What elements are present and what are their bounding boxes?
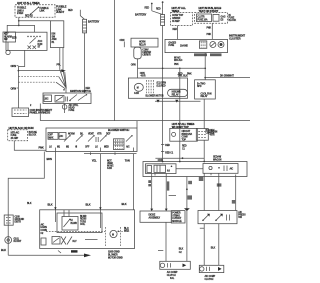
PS cutout module box — [171, 211, 185, 223]
svg-text:RED: RED — [68, 10, 73, 12]
svg-text:TAN: TAN — [125, 159, 130, 163]
label BLK left — [27, 203, 32, 205]
bus switch lever 1 — [69, 95, 77, 102]
wire to ignition switch column box — [19, 20, 51, 22]
pin hatch column — [147, 80, 154, 94]
fuse F1 text block — [17, 8, 33, 18]
motor M1 circle — [110, 230, 117, 237]
label PNK 1 — [207, 28, 212, 30]
label C1 right column — [211, 248, 216, 250]
svg-text:LINK A: LINK A — [17, 9, 24, 12]
battery feed stub — [68, 10, 85, 19]
label RED stub2 — [156, 8, 161, 10]
label ticks left wire — [148, 180, 151, 186]
svg-text:RELAY: RELAY — [201, 95, 209, 98]
connector sub-box (left) — [3, 32, 16, 42]
label above branch left — [178, 75, 189, 78]
label BRN — [47, 157, 53, 161]
wire BRN blower feed — [54, 152, 56, 210]
A/C control head box U3 — [46, 128, 137, 152]
wire breaker down — [137, 59, 139, 69]
svg-text:BZR: BZR — [12, 38, 17, 40]
svg-text:BLK: BLK — [211, 248, 216, 250]
svg-text:POWER: POWER — [172, 213, 181, 215]
header HOT IN RUN BULB TEST — [199, 6, 222, 13]
label FUSIBLE LINK E (right of box) — [56, 5, 67, 15]
diode entry arrows — [150, 209, 167, 211]
compressor clutch L2 coil — [199, 265, 224, 272]
svg-text:2 RED: 2 RED — [17, 13, 24, 15]
connector arrow on clutch wire — [184, 208, 190, 211]
relay sub-box inner — [62, 217, 78, 231]
instrument cluster box U5 — [165, 39, 228, 52]
wire breaker down to junction — [179, 141, 181, 161]
label HVAC MODULE note — [30, 105, 32, 107]
wire bus to long feed — [39, 104, 41, 121]
svg-text:MED: MED — [104, 146, 109, 148]
svg-text:CUTOUT: CUTOUT — [172, 218, 182, 220]
svg-text:PNK: PNK — [174, 64, 179, 66]
svg-text:25 AMP: 25 AMP — [11, 137, 19, 140]
svg-text:RED: RED — [145, 7, 150, 9]
wire junction to clutch (DK GRN) — [186, 177, 188, 262]
breaker circle — [172, 132, 176, 136]
fuse F2 text — [11, 132, 20, 140]
svg-text:IGNITION SWITCH: IGNITION SWITCH — [70, 89, 91, 93]
connector circle C1 — [6, 50, 10, 54]
node dot y77.6 + branch wire right — [204, 77, 250, 79]
tick on diode wire — [158, 249, 163, 251]
breaker text rows — [182, 131, 193, 141]
pressure contact 1 — [202, 214, 210, 221]
svg-text:RLY: RLY — [73, 241, 78, 243]
wire stub DK BLU — [217, 177, 222, 211]
wire merge diagonal — [152, 10, 163, 15]
svg-text:SPD: SPD — [197, 86, 202, 88]
battery stub 2 — [162, 1, 164, 9]
svg-text:10A IND: 10A IND — [180, 45, 188, 48]
node dot on clutch wire — [186, 188, 188, 190]
ground eyelet circle G101 — [5, 237, 12, 244]
wire long vertical drop (from top) — [114, 0, 116, 121]
node dot y68 — [204, 67, 206, 69]
svg-text:OFF: OFF — [85, 146, 90, 148]
svg-text:RELAY: RELAY — [172, 93, 180, 96]
wire fuse B down — [177, 26, 179, 40]
label A/C COMPRESSOR CLUTCH (left) — [167, 271, 178, 280]
svg-text:A/C COMP: A/C COMP — [167, 271, 178, 274]
svg-text:40 AMP: 40 AMP — [172, 20, 180, 23]
svg-text:C/BRKR: C/BRKR — [142, 55, 151, 57]
wire diode to clutch — [165, 222, 167, 261]
label right of breaker — [206, 130, 215, 135]
svg-text:IGN: IGN — [52, 34, 56, 36]
battery B1 symbol — [83, 19, 87, 33]
fuse C text — [221, 15, 226, 21]
svg-text:4-DR: 4-DR — [141, 75, 146, 78]
svg-text:PNK: PNK — [207, 34, 212, 36]
svg-text:B+ TWO: B+ TWO — [197, 83, 206, 85]
node A junction dots — [18, 20, 20, 26]
label RED tick on feed — [161, 145, 170, 147]
label connector right — [210, 132, 218, 137]
label IN FUSE BLOCK (right) — [229, 15, 237, 22]
alternate wire y158 — [155, 157, 204, 159]
contact X marks — [28, 46, 37, 50]
label BLK arrow 2 — [86, 202, 102, 209]
connector line y101 — [155, 100, 201, 102]
wire sub-box to pressure switch — [235, 175, 237, 211]
label ORN with tick — [11, 64, 19, 68]
wire junction to pressure switch — [203, 177, 205, 211]
switch X marks — [61, 237, 72, 245]
label PNK — [39, 145, 44, 149]
svg-text:RED: RED — [173, 29, 178, 31]
svg-text:A/C: A/C — [126, 145, 130, 148]
wire PNK cluster feed — [211, 23, 213, 39]
svg-text:BLK: BLK — [1, 248, 6, 252]
relay oval — [168, 89, 188, 96]
wire fan relay down — [203, 99, 205, 129]
svg-text:HOT AT ALL TIMES: HOT AT ALL TIMES — [17, 1, 40, 5]
bus switch lever 2 — [78, 94, 87, 100]
wire junction to diode left — [151, 177, 153, 212]
ignition switch U1 outer box — [6, 32, 47, 50]
label C205 GROUND — [15, 216, 25, 223]
wire junction to diode right — [165, 177, 167, 212]
header HOT AT ALL TIMES (mid right) — [172, 122, 195, 129]
wire battery down to ignition bus — [84, 33, 86, 93]
text rows inside ignition box right — [38, 40, 43, 49]
svg-text:DIODE: DIODE — [149, 215, 156, 217]
inner wire continuation 1 — [54, 210, 56, 222]
svg-text:TORS: TORS — [80, 221, 86, 223]
svg-text:RED: RED — [165, 145, 170, 147]
svg-text:RED: RED — [156, 8, 161, 10]
label 4 DR — [158, 159, 163, 162]
text rows right of pins — [157, 83, 167, 88]
svg-text:ACC: ACC — [38, 40, 43, 43]
wire ground run bottom — [8, 254, 87, 256]
svg-text:CONV TOP: CONV TOP — [172, 15, 184, 17]
svg-text:FUSE 10A: FUSE 10A — [197, 18, 207, 21]
label G101 — [14, 239, 22, 244]
svg-text:PNK: PNK — [187, 73, 192, 75]
ticks below module box — [58, 250, 78, 253]
label BLK right — [122, 202, 127, 206]
label ORN lower — [11, 86, 19, 90]
circuit breaker rounded — [134, 47, 141, 59]
svg-text:RUN: RUN — [38, 44, 43, 46]
cluster small text — [180, 45, 188, 48]
resistor hatch block — [114, 139, 125, 150]
svg-text:KEY: KEY — [4, 34, 9, 36]
compressor clutch L1 coil — [160, 261, 191, 269]
label inside ignition box left — [12, 38, 17, 40]
wire pressure switch to clutch 1 — [203, 224, 205, 266]
svg-text:C/BRKR: C/BRKR — [172, 18, 181, 20]
svg-text:GAGES: GAGES — [168, 41, 176, 44]
svg-text:BLOWER SWITCH: BLOWER SWITCH — [108, 128, 129, 132]
svg-text:JUNCT: JUNCT — [56, 10, 65, 14]
battery stub 1 (top right) — [151, 3, 153, 11]
svg-text:A/C: A/C — [41, 223, 45, 226]
label A/C PRESSURE SWITCHES — [238, 211, 246, 219]
inner wire continuation 2 — [99, 210, 101, 228]
svg-text:HI BLWR: HI BLWR — [172, 92, 181, 94]
pin dashes — [66, 97, 68, 102]
svg-text:RELAY: RELAY — [139, 43, 147, 46]
label RADIATOR FAN RELAY — [201, 92, 212, 98]
junction sub-box right — [203, 164, 238, 174]
svg-text:DEF: DEF — [106, 133, 111, 135]
svg-text:(C1) ORN: (C1) ORN — [157, 83, 167, 85]
svg-text:RESIS: RESIS — [80, 219, 87, 221]
svg-text:W/ A/C: W/ A/C — [107, 165, 114, 168]
label BATTERY (right section) — [135, 13, 147, 17]
svg-text:M: M — [137, 88, 139, 90]
circuit breaker box U8 — [170, 128, 198, 141]
svg-text:BLOWER: BLOWER — [108, 254, 118, 256]
svg-text:MODULE: MODULE — [172, 221, 182, 223]
labels below cluster — [194, 53, 222, 56]
terminal stubs — [55, 148, 133, 152]
wire to ignition switch feed — [7, 25, 34, 32]
svg-text:LO: LO — [49, 146, 52, 148]
fuse dashed box C — [195, 13, 228, 24]
svg-text:A/C: A/C — [59, 135, 63, 138]
svg-text:ASM: ASM — [52, 38, 57, 41]
heater A/C module box U4 — [40, 210, 135, 249]
pressure contact 2 — [215, 214, 223, 221]
svg-text:NORM: NORM — [68, 133, 75, 135]
svg-text:BATTERY: BATTERY — [88, 20, 100, 24]
svg-text:CLUSTER: CLUSTER — [229, 36, 241, 40]
HTR A/C fuse dashed box — [8, 130, 28, 141]
header HOT AT ALL TIMES (top-left) — [17, 1, 40, 5]
junction pin ticks right — [204, 173, 219, 176]
wire LT BLU right — [132, 154, 134, 210]
node dot and wire — [118, 231, 131, 233]
motor M2 circle — [134, 83, 143, 91]
label under motor — [134, 92, 139, 95]
svg-text:FUSE: FUSE — [69, 110, 75, 112]
connector C100 box — [12, 108, 29, 117]
label BLK arrow 1 — [48, 202, 57, 209]
svg-text:CLSTR: CLSTR — [197, 16, 205, 18]
blower motor box U6 — [128, 78, 187, 98]
svg-text:YEL: YEL — [92, 159, 97, 163]
connector arrows — [156, 100, 178, 103]
label BLK bottom — [1, 248, 6, 252]
svg-text:HEAD: HEAD — [69, 107, 75, 110]
inline connector box on PNK wire — [196, 129, 208, 141]
label tick 1 — [188, 181, 192, 184]
svg-text:HORN: HORN — [139, 41, 146, 43]
svg-text:DK GRN/WHT: DK GRN/WHT — [220, 75, 234, 77]
switch contact S2 — [76, 135, 83, 141]
label notes above bus — [174, 57, 183, 63]
switch contact S3 — [88, 135, 95, 141]
cluster fuse text — [168, 41, 176, 47]
wires from ignition column down — [60, 48, 66, 88]
label LT BLU — [125, 159, 130, 163]
wire horizontal bus y68 — [138, 67, 206, 69]
fusible link F3 element — [161, 15, 165, 26]
svg-text:SEDAN/: SEDAN/ — [213, 156, 221, 159]
svg-text:BLOWER MOTOR: BLOWER MOTOR — [146, 96, 164, 98]
label C1 tick on feed — [161, 152, 174, 155]
label IGNITION SWITCH — [52, 34, 57, 44]
label RED stub1 — [145, 7, 150, 9]
svg-text:BRN: BRN — [47, 157, 53, 161]
svg-text:OFF: OFF — [49, 135, 54, 137]
svg-text:A/C COMP: A/C COMP — [205, 275, 216, 278]
svg-text:STRNG: STRNG — [172, 215, 180, 217]
svg-text:RED: RED — [182, 145, 187, 147]
svg-text:ORN: ORN — [131, 65, 136, 67]
junction pin ticks left — [152, 174, 167, 177]
svg-text:ORN: ORN — [120, 40, 125, 42]
node B dot — [18, 70, 20, 72]
inner assembly box — [57, 213, 102, 233]
label DK GRN branch — [220, 75, 234, 77]
pointer line — [169, 195, 176, 197]
ignition contacts dots — [27, 36, 40, 37]
wire feed branch 3 (dashed) — [18, 82, 65, 89]
connector arrow blob bottom — [84, 254, 91, 258]
switch label row — [68, 133, 111, 135]
node dots on bus — [162, 67, 181, 69]
ignition switch column box — [51, 21, 64, 48]
switch contact S1 — [64, 135, 71, 141]
svg-text:FUSIBLE: FUSIBLE — [17, 8, 27, 10]
svg-text:ALARM: ALARM — [4, 35, 12, 38]
horn relay box — [131, 38, 158, 47]
svg-text:PPL: PPL — [57, 65, 62, 67]
terminal labels row — [49, 145, 130, 148]
gauge circle — [210, 42, 216, 48]
junction block box U9 — [143, 162, 247, 177]
svg-text:4-DR: 4-DR — [107, 167, 112, 170]
svg-text:BLWR: BLWR — [80, 216, 87, 218]
wire stub to blower box — [137, 68, 139, 78]
connector arrow blob — [61, 69, 66, 72]
fuse C sub-box 2 — [213, 14, 219, 21]
svg-text:GAG: GAG — [221, 15, 226, 18]
label YEL — [92, 159, 97, 163]
wire long RED feed down to junction box — [162, 26, 164, 162]
svg-text:HARN: HARN — [41, 226, 48, 229]
label IGNITION SWITCH (bus) — [70, 89, 91, 93]
fuse dashed box B — [171, 13, 193, 26]
svg-text:HOT IN ACC OR RUN: HOT IN ACC OR RUN — [9, 126, 34, 130]
svg-text:LINK: LINK — [40, 11, 45, 13]
breaker inner wire — [179, 128, 181, 141]
svg-text:RED C1: RED C1 — [165, 152, 174, 154]
wire BRN to ground run — [8, 152, 44, 256]
wire fuse to control head — [14, 141, 46, 150]
label inside module — [73, 241, 78, 243]
blower motor dashed leads — [106, 227, 121, 246]
svg-text:CLUTCH: CLUTCH — [167, 275, 176, 277]
svg-text:S205 GRND: S205 GRND — [108, 251, 120, 253]
svg-text:PNK: PNK — [39, 145, 44, 149]
svg-text:BLK: BLK — [86, 202, 91, 206]
connector box on ground wire — [4, 215, 13, 225]
label PNK 2 — [207, 34, 212, 36]
svg-text:BLK: BLK — [48, 202, 53, 206]
indicator lamp circle — [218, 42, 224, 48]
fuse C sub-box 1 — [197, 14, 212, 22]
fuse B text rows — [172, 15, 184, 23]
label tick 2 — [187, 195, 192, 199]
fuse HTR sub-box — [55, 96, 64, 103]
svg-text:BLK: BLK — [122, 202, 127, 206]
label A/C CONTROL FUSE — [69, 104, 79, 112]
svg-text:A/C CTRL: A/C CTRL — [69, 104, 79, 107]
label RED on breaker wire — [182, 145, 187, 150]
label BLOWER SWITCH — [108, 128, 129, 132]
svg-text:ORN: ORN — [11, 86, 17, 90]
svg-text:M: M — [112, 234, 114, 236]
label A/C HARNESS block — [41, 223, 48, 234]
label HI BLOWER text — [71, 220, 78, 225]
resistor block text — [80, 216, 87, 226]
wire diagonal into bus — [65, 72, 67, 89]
stub wire ORN left — [120, 40, 125, 47]
label RED fuse B — [173, 29, 178, 31]
label PS cutout module — [172, 213, 182, 223]
svg-text:COIL: COIL — [80, 224, 86, 226]
svg-text:6.0L: 6.0L — [170, 278, 175, 280]
inner pin wires — [64, 210, 69, 217]
wire inline connector down — [203, 140, 205, 161]
wire feed branch 2 (dashed) — [18, 76, 65, 87]
wire from fusible link down — [18, 17, 20, 26]
switch contact S5 — [126, 135, 133, 141]
svg-text:WAGON: WAGON — [213, 158, 222, 161]
svg-text:BATTERY: BATTERY — [135, 13, 147, 17]
svg-text:ASSEMBLY: ASSEMBLY — [149, 217, 161, 220]
svg-text:MOTOR GRND: MOTOR GRND — [108, 257, 123, 259]
svg-text:CLUTCH: CLUTCH — [205, 279, 214, 281]
wire ignition switch output down — [18, 51, 24, 109]
inner line — [85, 239, 98, 241]
svg-text:W/O A/C: W/O A/C — [174, 59, 183, 62]
wire feed branch 1 — [18, 70, 61, 72]
svg-text:BLOCK: BLOCK — [229, 20, 237, 22]
label B+ — [197, 83, 206, 88]
svg-text:HTR: HTR — [97, 133, 102, 135]
junction feed dots — [162, 161, 205, 163]
wire RED down to breaker box — [179, 68, 181, 128]
label IN FUSE BLOCK — [29, 132, 38, 137]
label tick near pressure bottom — [200, 227, 204, 229]
fuse block 20C sub-box — [44, 95, 52, 102]
wire pressure switch to clutch 2 — [218, 224, 220, 266]
fan relay box U7 — [195, 80, 216, 99]
svg-text:ORN: ORN — [11, 64, 17, 68]
diode assembly box — [140, 211, 171, 222]
svg-text:WER: WER — [124, 231, 129, 233]
label BATTERY — [88, 20, 100, 24]
header HOT IN ACC OR RUN — [9, 126, 34, 130]
label tick right — [232, 200, 235, 204]
note NOT USED text block — [107, 160, 114, 170]
wire long horizontal feed — [40, 120, 250, 122]
label G102 text block — [108, 251, 123, 259]
